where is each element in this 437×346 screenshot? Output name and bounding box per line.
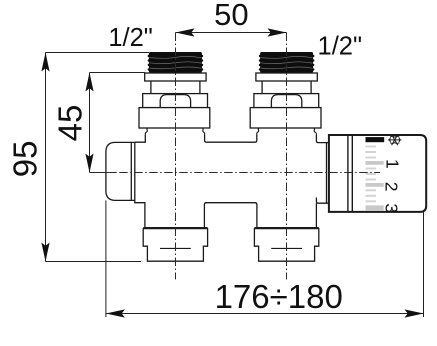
top connection right: neck <box>262 81 311 94</box>
right boss edge <box>315 203 317 228</box>
svg-text:1: 1 <box>383 159 403 169</box>
body bottom edge between connections <box>204 203 257 228</box>
body top edge between connections <box>205 134 257 142</box>
svg-text:1/2": 1/2" <box>108 24 153 52</box>
bottom connection right: nut <box>254 228 318 261</box>
adapter bottom edge <box>316 198 329 204</box>
bottom connection right: nut top <box>254 227 318 229</box>
adapter right edge <box>326 143 328 204</box>
head scale: long ticks <box>366 161 384 210</box>
dimension 95 <box>46 53 150 262</box>
top connection left: insert cap <box>160 95 190 108</box>
top connection left: collar <box>145 73 206 81</box>
top connection left: left transition squiggle <box>145 128 147 135</box>
top connection left: thread <box>148 52 204 73</box>
centerline pipe axis solid lead <box>90 172 117 174</box>
top connection right: upper block <box>254 94 319 108</box>
svg-text:2: 2 <box>382 182 402 192</box>
body bottom left segment <box>135 200 145 228</box>
svg-text:176÷180: 176÷180 <box>215 278 343 315</box>
top connection left: upper block <box>143 94 208 108</box>
top connection right: wide block <box>250 108 321 128</box>
head grip ring lines <box>347 135 349 212</box>
bottom connection left: nut top <box>143 227 207 229</box>
body right end and adapter top edge <box>316 134 329 142</box>
arrow 95 bottom <box>41 243 49 262</box>
end cap <box>106 142 135 200</box>
arrow 176 right <box>405 309 424 317</box>
arrow 95 top <box>41 53 49 72</box>
svg-text:45: 45 <box>52 105 89 142</box>
arrow 50 left <box>176 28 195 36</box>
top connection right: insert cap <box>271 95 301 108</box>
dimension 176-180 <box>106 200 424 317</box>
svg-text:1/2": 1/2" <box>318 33 363 61</box>
arrow 50 right <box>268 28 287 36</box>
bottom connection left: tailpiece inner line <box>160 247 191 249</box>
top connection left: right transition squiggle <box>202 128 204 134</box>
svg-text:95: 95 <box>7 141 44 178</box>
top connection right: left transition squiggle <box>257 128 259 134</box>
top connection right: right transition squiggle <box>314 128 317 134</box>
top connection right: collar <box>256 73 317 81</box>
head snowflake symbol <box>388 135 401 146</box>
top connection left: wide block <box>139 108 210 128</box>
dimension 50 <box>176 32 287 34</box>
svg-text:3: 3 <box>382 203 402 213</box>
head scale: short ticks <box>366 146 377 203</box>
bottom connection left: nut <box>143 228 207 261</box>
arrow 45 bottom <box>85 154 93 173</box>
svg-text:50: 50 <box>214 0 248 32</box>
bottom connection right: tailpiece inner line <box>271 247 302 249</box>
dimension 45 <box>90 73 145 173</box>
centerline left connection <box>175 33 177 280</box>
body top edge left sliver and step <box>135 135 146 143</box>
thermostatic head body <box>329 135 426 212</box>
valve body outline <box>135 134 329 228</box>
arrow 45 top <box>85 73 93 92</box>
top connection left: neck <box>151 81 200 94</box>
arrow 176 left <box>106 309 125 317</box>
top connection right: thread <box>259 52 315 73</box>
head scale: black bar <box>366 137 385 142</box>
centerline right connection <box>286 33 288 280</box>
centerline pipe axis <box>119 172 380 174</box>
